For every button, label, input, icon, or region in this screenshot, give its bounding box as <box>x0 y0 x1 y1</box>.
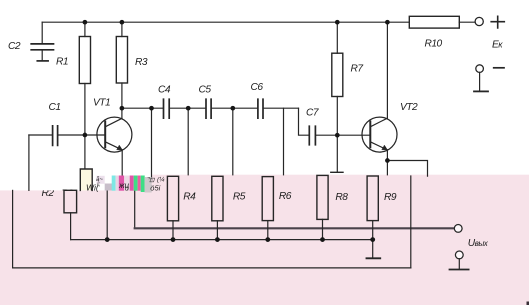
svg-text:(¼: (¼ <box>157 177 165 184</box>
resistor R8 <box>317 175 328 219</box>
node rail-R3 <box>120 20 125 25</box>
emitter node wire down to R9 (clipped by pink) <box>386 161 388 175</box>
glitch noise band <box>86 176 165 193</box>
wire C1 to VT1 base <box>58 134 105 136</box>
transistor VT2 <box>362 117 397 152</box>
capacitor C4 <box>164 99 170 118</box>
stub wire below chain node 1 <box>151 108 153 179</box>
emitter copy wire <box>106 191 108 240</box>
ground symbol below R9 <box>372 240 374 258</box>
node chain 2 <box>186 106 191 111</box>
terminal + circle <box>475 17 483 25</box>
wire C6 to C7 corner <box>299 108 310 135</box>
output rail A copy <box>134 191 136 228</box>
capacitor C1 <box>29 134 52 136</box>
wire rail to R3 <box>121 22 123 36</box>
ground post below minus terminal <box>479 72 481 91</box>
capacitor C2 <box>31 22 53 61</box>
wire R3 to VT1 collector <box>121 83 123 118</box>
wire R1 to base node to R2 <box>84 84 86 170</box>
stub wire below chain corner to R6 <box>283 108 285 175</box>
resistor R6 <box>262 177 273 221</box>
svg-text:и: и <box>125 186 129 193</box>
capacitor C6 <box>258 99 263 118</box>
node emitter VT2 <box>385 158 390 163</box>
gray block <box>105 184 113 191</box>
wire R5 to rail <box>216 221 218 240</box>
wire R2 copy to bottom rail <box>70 213 72 240</box>
bottom rail B <box>71 239 373 241</box>
svg-text:R7: R7 <box>351 63 364 74</box>
bottom outer rail <box>13 267 411 269</box>
plus sign <box>491 16 504 28</box>
resistor R3 <box>116 37 127 84</box>
node rail-R7 <box>335 20 340 25</box>
node rail B 6 <box>370 237 375 242</box>
right outer wire <box>410 176 412 268</box>
node base VT1 <box>83 133 88 138</box>
node rail B 1 <box>105 237 110 242</box>
resistor R1 <box>79 37 90 84</box>
resistor R2 true (partly hidden by pink) <box>80 169 92 190</box>
wire R4 to rail <box>172 221 174 240</box>
output terminal circle <box>454 225 462 233</box>
node rail B 5 <box>320 237 325 242</box>
VT2 collector wire from rail <box>386 22 388 118</box>
wire rail to R7 <box>336 22 338 53</box>
svg-text:R6: R6 <box>279 191 292 202</box>
svg-text:C7: C7 <box>306 108 319 119</box>
resistor R5 <box>212 176 223 221</box>
node chain 3 <box>230 106 235 111</box>
svg-text:R8: R8 <box>335 192 348 203</box>
wire C7 to VT2 base <box>316 134 371 136</box>
wire R6 to rail <box>267 221 269 240</box>
resistor R2 copy box <box>64 190 77 213</box>
capacitor C5 <box>206 99 211 118</box>
node rail B 4 <box>265 237 270 242</box>
VT1 emitter wire down <box>121 150 123 179</box>
svg-text:R10: R10 <box>425 39 443 50</box>
stray dark mark bottom-right corner <box>527 302 529 305</box>
collector chain wire through C4 C5 C6 <box>122 107 299 109</box>
wire R9 to rail <box>372 221 374 240</box>
svg-text:VT2: VT2 <box>400 102 418 113</box>
svg-text:C6: C6 <box>251 82 264 93</box>
capacitor C7 <box>309 126 315 145</box>
pink corrupted region full-width lower part <box>0 190 529 305</box>
gray-white block <box>145 177 152 193</box>
node collector VT1 <box>120 106 125 111</box>
svg-text:VT1: VT1 <box>93 97 110 108</box>
stripe field <box>116 176 119 191</box>
label R2 true clipped by pink <box>61 188 74 199</box>
resistor R9 <box>367 176 378 221</box>
svg-text:R1: R1 <box>56 56 68 67</box>
svg-text:R5: R5 <box>233 192 246 203</box>
svg-text:Ек: Ек <box>492 40 503 51</box>
transistor VT1 <box>97 117 132 152</box>
ground post below output terminal 2 <box>458 259 460 269</box>
left outer wire <box>12 190 14 268</box>
top supply rail wire <box>42 21 475 23</box>
emitter node wire right then down <box>387 161 427 177</box>
wire R8 to rail <box>322 219 324 239</box>
svg-text:R9: R9 <box>384 192 397 203</box>
stub wire below chain node 2 to R4 <box>187 108 189 175</box>
resistor R4 <box>167 176 178 221</box>
resistor R10 <box>409 16 459 28</box>
node rail-VT2 <box>385 20 390 25</box>
cyan sliver <box>112 176 116 191</box>
node rail-R1 <box>83 20 88 25</box>
svg-text:C4: C4 <box>158 85 171 96</box>
wire C1 left down to bottom <box>28 135 30 190</box>
purple squiggles <box>97 176 105 184</box>
stub wire below chain node 3 to R5 <box>232 108 234 175</box>
pink corrupted region upper-right part <box>152 175 529 305</box>
minus sign <box>494 67 504 69</box>
svg-text:Uвых: Uвых <box>468 238 489 249</box>
terminal - circle <box>476 65 484 73</box>
VT2 emitter wire to node <box>386 150 388 161</box>
resistor R8 top edge (true position, clipped by pink) <box>331 171 343 173</box>
resistor R7 <box>332 53 343 96</box>
svg-text:R4: R4 <box>183 192 196 203</box>
wire R7 down through base node to R8 top <box>336 97 338 173</box>
svg-text:R3: R3 <box>135 57 148 68</box>
node rail B 2 <box>171 237 176 242</box>
output terminal circle 2 <box>455 251 463 259</box>
wire rail to R1 <box>84 22 86 36</box>
svg-text:C2: C2 <box>8 41 21 52</box>
svg-text:ӧ5і: ӧ5і <box>150 184 160 193</box>
node base VT2 <box>335 133 340 138</box>
svg-text:C5: C5 <box>199 85 212 96</box>
node chain 1 <box>149 106 154 111</box>
node rail B 3 <box>215 237 220 242</box>
svg-text:Wi(: Wi( <box>86 183 100 193</box>
label R2 copy (clipped by pink boundary) <box>42 188 55 199</box>
svg-text:C1: C1 <box>49 102 61 113</box>
